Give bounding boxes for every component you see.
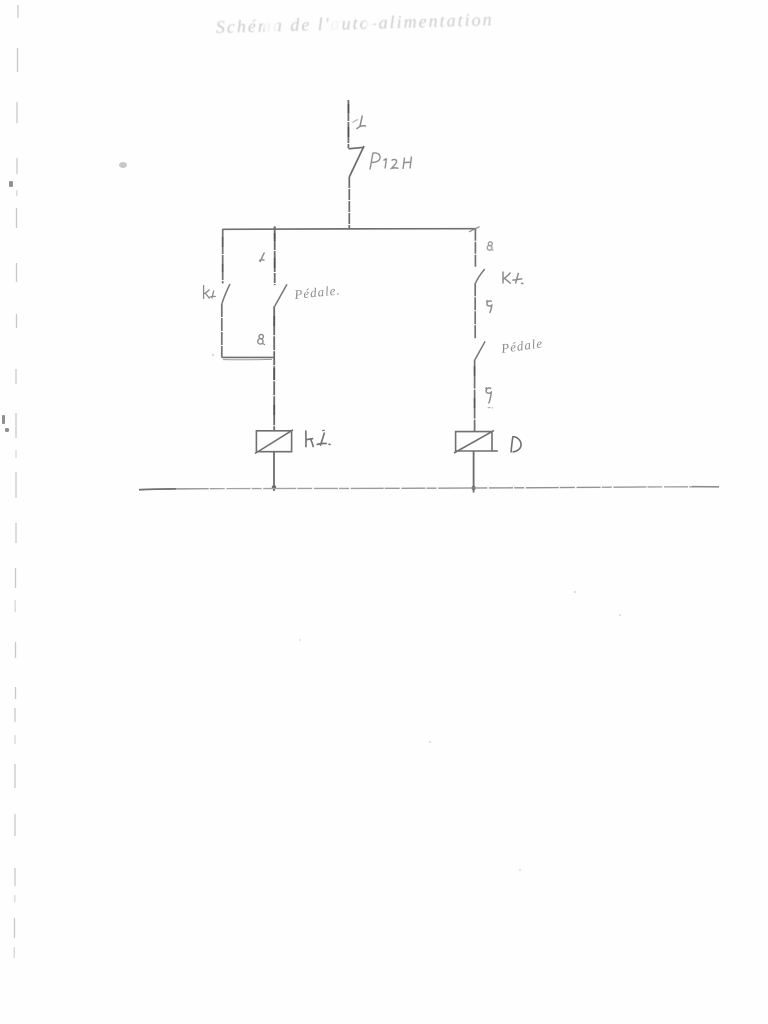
- wire: coil D to bottom rail: [473, 451, 475, 493]
- pin label 8 (right branch): [487, 242, 493, 251]
- wire: left branch upper segment: [222, 229, 224, 284]
- label K1 (left): [204, 285, 216, 299]
- contact K1 (right branch, NO blade): [475, 269, 484, 283]
- wire: right branch lower segment: [474, 360, 476, 432]
- junction tick at middle branch top: [273, 226, 276, 229]
- junction dot right: [471, 486, 475, 490]
- label K1 (coil): [306, 430, 331, 447]
- decorative scan artifacts: left paper-edge dashes and specks (unlabeled): [14, 5, 18, 958]
- coil D: [454, 430, 498, 453]
- wire: middle branch upper segment: [274, 229, 276, 285]
- value label P12H: [370, 153, 412, 170]
- wire: right branch middle segment: [474, 283, 476, 339]
- contact Pédale (right, NO blade): [475, 341, 485, 359]
- corner overshoot at right end of rail: [469, 227, 480, 232]
- contact Pédale (left, NO blade): [275, 284, 287, 306]
- wire: bottom of holding loop: [222, 356, 274, 358]
- wire: bottom return rail: [139, 487, 719, 490]
- wire: top horizontal rail node: [223, 228, 476, 231]
- wire: left branch lower segment: [221, 304, 223, 358]
- coil K1: [255, 430, 293, 454]
- wire: right branch upper segment: [474, 229, 476, 268]
- label K1 (right): [503, 272, 524, 284]
- junction dot left: [272, 485, 276, 489]
- label D (coil): [511, 436, 521, 453]
- pin label 1 (middle branch): [259, 253, 265, 263]
- wire: middle branch lower segment: [273, 306, 275, 430]
- wire: top supply lead: [347, 100, 349, 148]
- title: faint handwritten "Schéma de l'auto-alimentation": [216, 5, 503, 37]
- wire: coil K1 to bottom rail: [273, 452, 275, 491]
- pin label 9 (right branch lower): [486, 387, 494, 408]
- pin label 8 (middle branch): [258, 334, 265, 344]
- contact P12H (protection, normally-closed blade): [348, 146, 364, 229]
- pin label 9 (right branch upper): [486, 300, 492, 313]
- pin label 1 (top of P12H): [353, 116, 367, 130]
- contact K1 (holding, NO blade, left branch): [222, 284, 230, 304]
